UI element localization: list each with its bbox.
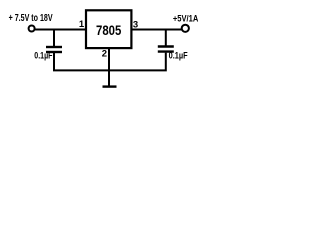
svg-text:0.1µF: 0.1µF [34, 50, 52, 61]
svg-text:+5V/1A: +5V/1A [173, 13, 199, 24]
svg-text:2: 2 [102, 48, 107, 59]
svg-text:7805: 7805 [96, 22, 121, 38]
svg-text:+ 7.5V to 18V: + 7.5V to 18V [9, 13, 53, 24]
svg-text:0.1µF: 0.1µF [169, 51, 188, 62]
svg-text:1: 1 [79, 19, 85, 30]
svg-text:3: 3 [133, 19, 138, 30]
